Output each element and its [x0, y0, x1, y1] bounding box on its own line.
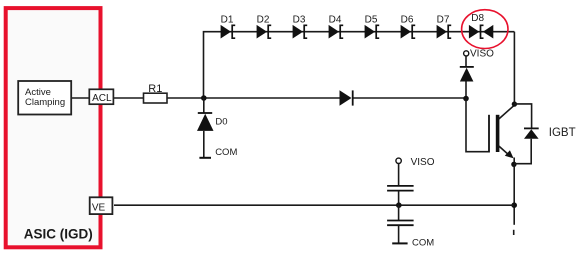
wire from D8 down to collector node: [513, 32, 515, 104]
VE wire: [114, 204, 514, 206]
emitter stub dash: [513, 230, 515, 235]
red highlight ellipse around D8: [462, 10, 508, 49]
svg-text:ASIC (IGD): ASIC (IGD): [24, 227, 93, 242]
wire mid diode to gate node: [353, 97, 466, 99]
svg-text:D1: D1: [221, 15, 234, 26]
top rail wire (D1..D8 chain): [204, 32, 515, 98]
VISO terminal (mid, capacitors): [396, 158, 401, 163]
ASIC (IGD) block outline: [6, 8, 101, 247]
resistor R1: [144, 93, 168, 103]
wire C1 to VE wire: [398, 191, 400, 206]
wire ACL to R1: [114, 97, 144, 99]
diode D7: [437, 25, 452, 39]
svg-text:D2: D2: [257, 15, 270, 26]
svg-text:R1: R1: [148, 83, 162, 95]
svg-text:Clamping: Clamping: [25, 97, 65, 108]
wire Active Clamping to ACL: [72, 97, 90, 99]
diode D2: [257, 25, 272, 39]
Active Clamping block: [18, 81, 71, 115]
gate lead wire: [466, 99, 489, 152]
collector node junction: [512, 101, 517, 106]
body bar: [496, 115, 500, 152]
svg-text:D4: D4: [329, 15, 342, 26]
svg-text:VE: VE: [92, 202, 106, 213]
diode D5: [365, 25, 380, 39]
svg-text:D0: D0: [215, 117, 227, 128]
svg-text:D6: D6: [401, 15, 414, 26]
svg-text:ACL: ACL: [92, 93, 112, 104]
emitter / VE node junction: [511, 202, 517, 208]
gate node junction: [463, 96, 469, 102]
ground COM (under C2): [392, 242, 407, 244]
wire C2 to ground: [398, 225, 400, 243]
emitter wire down: [513, 164, 515, 225]
port box ACL: [89, 89, 113, 104]
wire VISO to C1: [398, 164, 400, 186]
diode D0: [197, 98, 214, 158]
ground COM (under D0): [199, 157, 211, 159]
IGBT Q1: [489, 105, 514, 164]
capacitor C2: [387, 221, 414, 226]
emitter diagonal with arrow: [499, 146, 510, 156]
junction node (R1 / D0 / top rail): [201, 95, 207, 101]
svg-text:D8: D8: [471, 13, 484, 24]
mid series diode: [340, 90, 353, 105]
diode D3: [293, 25, 308, 39]
capacitor/VE node junction: [396, 202, 402, 208]
svg-text:COM: COM: [412, 237, 434, 248]
wire R1 to mid diode: [167, 97, 340, 99]
gate bar: [488, 115, 490, 153]
port box VE: [90, 197, 113, 214]
svg-text:VISO: VISO: [470, 49, 494, 60]
VISO terminal (top, near D8): [464, 51, 469, 56]
svg-text:COM: COM: [215, 147, 237, 158]
svg-text:VISO: VISO: [411, 157, 435, 168]
emitter node junction: [511, 162, 516, 167]
diode D6: [401, 25, 416, 39]
svg-text:D5: D5: [365, 15, 378, 26]
collector diagonal: [499, 105, 515, 119]
wire VE to C2: [398, 205, 400, 220]
diode D1: [221, 25, 236, 39]
svg-text:IGBT: IGBT: [549, 127, 576, 139]
svg-text:D3: D3: [293, 15, 306, 26]
diode D4: [329, 25, 344, 39]
capacitor C1: [387, 186, 414, 191]
svg-text:D7: D7: [437, 15, 450, 26]
zener diode under VISO: [460, 56, 474, 99]
freewheel diode across IGBT: [514, 104, 539, 164]
diode pair D8: [469, 25, 493, 39]
